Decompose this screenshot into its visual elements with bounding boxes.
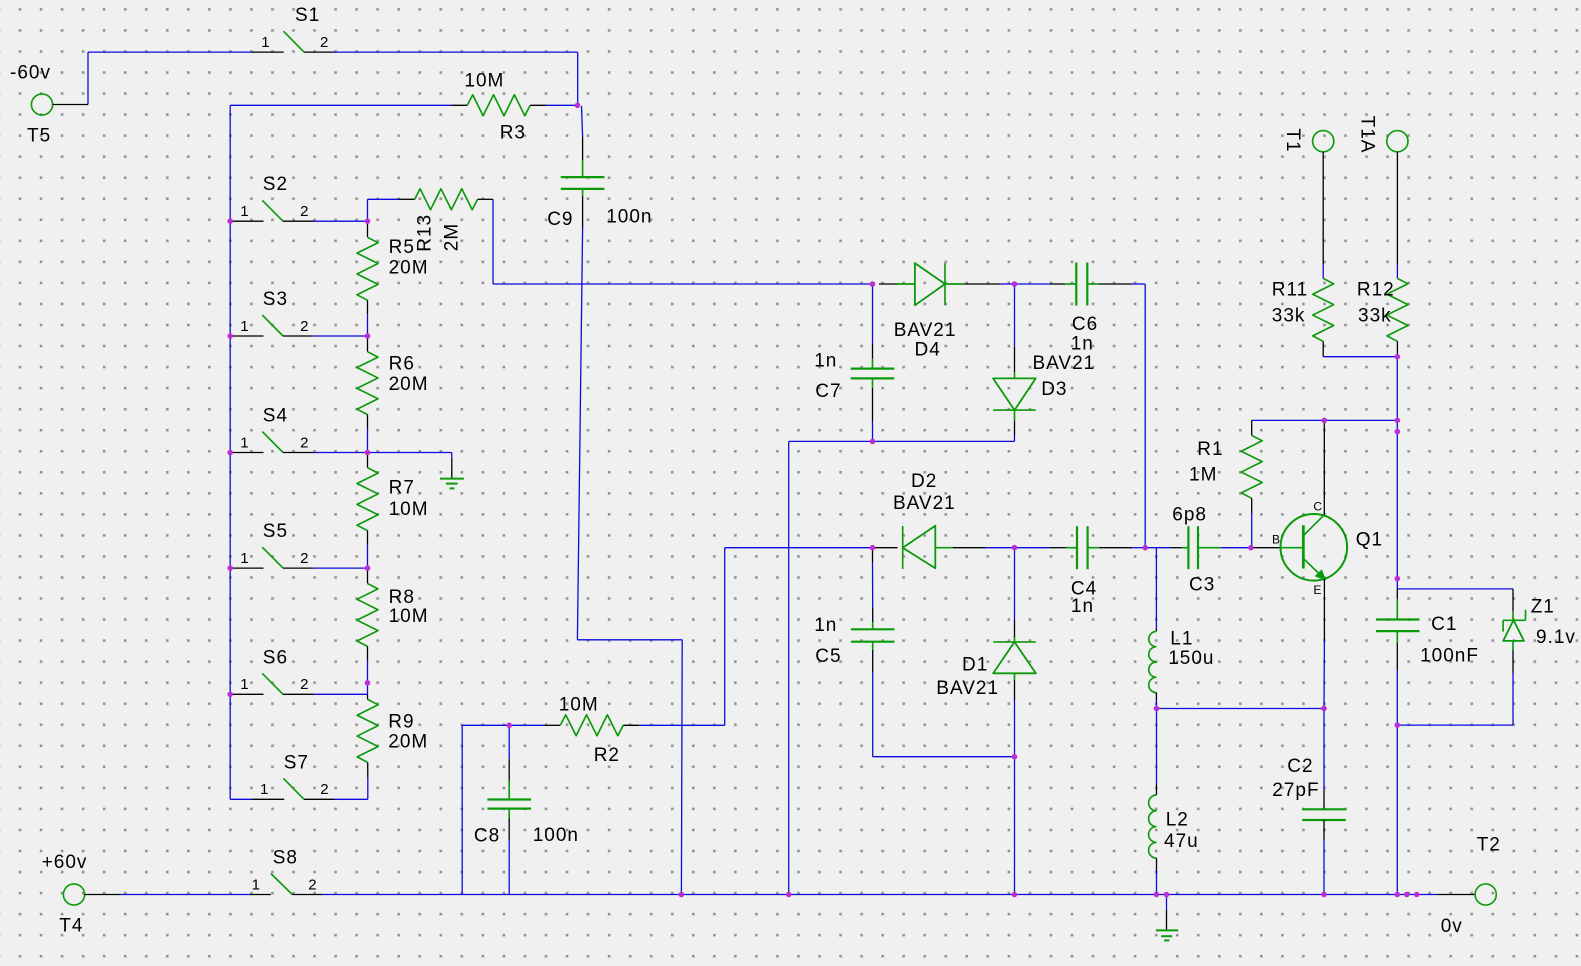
svg-text:100n: 100n bbox=[606, 207, 652, 228]
svg-text:S5: S5 bbox=[263, 521, 288, 542]
svg-text:S8: S8 bbox=[273, 848, 298, 869]
svg-text:S1: S1 bbox=[295, 5, 320, 26]
svg-text:BAV21: BAV21 bbox=[1033, 353, 1096, 374]
svg-text:20M: 20M bbox=[388, 731, 428, 752]
svg-text:1: 1 bbox=[240, 676, 249, 693]
svg-text:C8: C8 bbox=[474, 826, 500, 847]
svg-text:1: 1 bbox=[240, 550, 249, 567]
svg-text:BAV21: BAV21 bbox=[893, 493, 956, 514]
svg-text:1n: 1n bbox=[1071, 596, 1094, 617]
svg-text:R6: R6 bbox=[389, 354, 415, 375]
svg-text:D2: D2 bbox=[911, 471, 937, 492]
svg-text:S2: S2 bbox=[263, 174, 288, 195]
svg-text:R13: R13 bbox=[415, 214, 436, 252]
svg-text:Z1: Z1 bbox=[1531, 597, 1555, 618]
svg-text:D1: D1 bbox=[962, 655, 988, 676]
svg-text:10M: 10M bbox=[389, 499, 429, 520]
svg-text:2: 2 bbox=[320, 781, 329, 798]
svg-text:T1: T1 bbox=[1282, 128, 1303, 152]
svg-text:1M: 1M bbox=[1189, 465, 1217, 486]
svg-text:E: E bbox=[1313, 583, 1322, 597]
svg-text:D3: D3 bbox=[1041, 379, 1067, 400]
svg-text:1: 1 bbox=[240, 434, 249, 451]
svg-text:20M: 20M bbox=[389, 257, 429, 278]
svg-text:C2: C2 bbox=[1287, 756, 1313, 777]
svg-text:1: 1 bbox=[252, 876, 261, 893]
svg-text:1: 1 bbox=[240, 203, 249, 220]
svg-text:2: 2 bbox=[308, 876, 317, 893]
svg-text:T1A: T1A bbox=[1357, 116, 1378, 154]
svg-text:1n: 1n bbox=[814, 351, 837, 372]
svg-text:R2: R2 bbox=[594, 745, 620, 766]
svg-text:C7: C7 bbox=[815, 381, 841, 402]
svg-text:-60v: -60v bbox=[10, 63, 51, 84]
svg-text:C6: C6 bbox=[1072, 314, 1098, 335]
svg-text:R12: R12 bbox=[1357, 280, 1395, 301]
svg-text:10M: 10M bbox=[464, 71, 504, 92]
svg-text:Q1: Q1 bbox=[1356, 530, 1383, 551]
svg-text:1n: 1n bbox=[1071, 334, 1094, 355]
svg-text:T2: T2 bbox=[1477, 835, 1501, 856]
svg-text:33k: 33k bbox=[1272, 306, 1306, 327]
svg-text:S4: S4 bbox=[263, 406, 288, 427]
svg-text:C5: C5 bbox=[815, 646, 841, 667]
svg-text:10M: 10M bbox=[559, 695, 599, 716]
svg-text:BAV21: BAV21 bbox=[936, 678, 999, 699]
svg-text:S6: S6 bbox=[263, 647, 288, 668]
svg-text:+60v: +60v bbox=[42, 852, 88, 873]
svg-text:1: 1 bbox=[261, 34, 270, 51]
svg-text:20M: 20M bbox=[389, 374, 429, 395]
svg-text:C: C bbox=[1313, 500, 1323, 514]
svg-text:2: 2 bbox=[300, 318, 309, 335]
svg-text:150u: 150u bbox=[1168, 648, 1214, 669]
svg-text:R7: R7 bbox=[389, 478, 415, 499]
svg-text:R5: R5 bbox=[389, 237, 415, 258]
svg-text:2M: 2M bbox=[441, 223, 462, 251]
svg-text:R3: R3 bbox=[500, 123, 526, 144]
svg-text:D4: D4 bbox=[915, 340, 941, 361]
svg-text:0v: 0v bbox=[1441, 916, 1463, 937]
svg-text:C9: C9 bbox=[547, 209, 573, 230]
svg-text:100n: 100n bbox=[533, 825, 579, 846]
svg-text:2: 2 bbox=[300, 550, 309, 567]
svg-text:2: 2 bbox=[300, 676, 309, 693]
svg-text:1: 1 bbox=[260, 781, 269, 798]
svg-text:100nF: 100nF bbox=[1420, 646, 1479, 667]
svg-text:R11: R11 bbox=[1272, 280, 1308, 301]
svg-text:C1: C1 bbox=[1431, 614, 1457, 635]
svg-text:T5: T5 bbox=[27, 126, 51, 147]
svg-text:1: 1 bbox=[240, 318, 249, 335]
svg-text:2: 2 bbox=[300, 434, 309, 451]
svg-text:BAV21: BAV21 bbox=[894, 320, 957, 341]
svg-text:1n: 1n bbox=[814, 615, 837, 636]
svg-text:T4: T4 bbox=[59, 916, 83, 937]
svg-text:S7: S7 bbox=[284, 752, 309, 773]
svg-text:47u: 47u bbox=[1164, 831, 1199, 852]
svg-text:L1: L1 bbox=[1170, 629, 1193, 650]
svg-text:27pF: 27pF bbox=[1272, 780, 1319, 801]
svg-text:L2: L2 bbox=[1166, 810, 1189, 831]
svg-text:R8: R8 bbox=[389, 587, 415, 608]
svg-text:10M: 10M bbox=[389, 606, 429, 627]
svg-text:9.1v: 9.1v bbox=[1536, 627, 1576, 648]
svg-text:C3: C3 bbox=[1189, 575, 1215, 596]
svg-text:R9: R9 bbox=[388, 711, 414, 732]
svg-text:B: B bbox=[1272, 533, 1281, 547]
svg-text:6p8: 6p8 bbox=[1172, 505, 1207, 526]
svg-text:2: 2 bbox=[300, 203, 309, 220]
svg-text:S3: S3 bbox=[263, 289, 288, 310]
svg-text:2: 2 bbox=[320, 34, 329, 51]
svg-text:33k: 33k bbox=[1358, 306, 1392, 327]
svg-text:R1: R1 bbox=[1197, 439, 1223, 460]
